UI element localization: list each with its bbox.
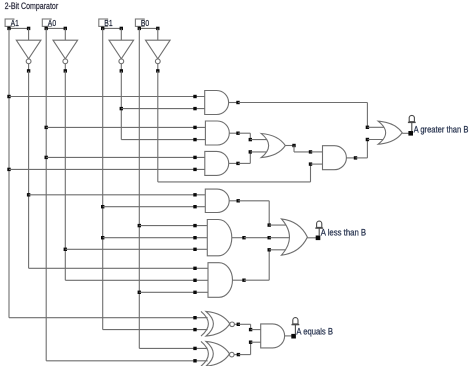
wire B1 to AND6 input B [103,236,208,239]
or-gate OR2 [378,121,411,144]
wire AND7 out to OR3 input C [244,248,287,280]
wire B0 to XNOR2 input A [139,347,207,350]
wire NOT-B1 vertical bus [120,71,123,140]
xnor-gate XNOR2 (B0,A0) [201,341,240,366]
wire B0 pin to inverter [138,26,160,30]
inverter NOT-B0 [146,28,171,72]
xnor-gate XNOR1 (A1,B1) [201,311,240,336]
wire OR1 out to AND4 input A [294,146,323,154]
wire B1 to XNOR1 input B [103,328,208,331]
wire A1 pin to inverter [7,26,30,30]
wire B1 to AND5 input B [103,205,206,208]
wire A1 vertical bus [7,28,10,317]
wire B0 vertical bus [138,28,141,348]
wire A1 to AND1 input A [9,95,205,98]
and-gate AND4 [323,146,358,170]
and-gate AND5 (A1'.B1) [205,189,240,212]
svg-text:B0: B0 [141,18,150,28]
and-gate AND8 (equals) [261,324,294,348]
wire XNOR1 out to AND8 input A [238,324,260,331]
svg-text:A equals B: A equals B [296,327,333,337]
wire AND5 out to OR3 input A [238,201,287,227]
wire NOT-B1 to AND2 input B [121,138,205,141]
LED output A equals B [292,318,300,335]
input pin B1 [99,18,114,28]
wire AND4 input B stub [311,163,323,165]
input pin A1 [5,18,20,28]
wire NOT-A1 vertical bus [27,71,30,268]
wire NOT-A0 to AND7 input B [65,279,208,282]
wire A0 pin to inverter [45,26,68,30]
wire A0 to XNOR2 input B [46,359,207,362]
or-gate OR3 (3-input) [281,219,318,255]
solder joint at output LED less [316,236,321,241]
wire B1 pin to inverter [101,26,123,30]
svg-text:A1: A1 [11,18,20,28]
and-gate AND6 (B0.B1.A0') [207,220,245,256]
svg-text:A greater than B: A greater than B [414,124,469,134]
and-gate AND3 (A0.A1) [205,151,240,175]
wire NOT-A0 to AND6 input C [65,248,207,251]
wire AND6 out to OR3 input B [244,236,290,239]
and-gate AND2 (A0.B1') [205,121,239,145]
wire AND4 out to OR2 input B [356,138,385,158]
wire NOT-B1 to AND1 input B [121,107,204,110]
svg-text:A less than B: A less than B [321,227,366,237]
svg-text:A0: A0 [48,18,57,28]
input pin B0 [135,18,150,28]
input pin A0 [42,18,57,28]
LED output A less than B [315,221,323,236]
wire XNOR2 out to AND8 input B [238,341,260,355]
and-gate AND7 (A1'.A0'.B0) [208,263,246,298]
wire NOT-A1 to AND5 input A [29,193,206,196]
solder joint at output LED equals [291,334,296,339]
inverter NOT-A0 [53,28,78,72]
wire AND1 out to OR2 input A [238,103,385,130]
svg-text:2-Bit Comparator: 2-Bit Comparator [5,1,59,11]
solder joint at output LED greater [408,131,413,136]
wire A0 to AND2 input A [46,126,205,129]
wire AND3 out to OR1 input B [238,150,268,163]
LED output A greater than B [408,115,416,131]
wire B0 to AND6 input A [139,224,207,227]
wire NOT-A0 vertical bus [64,71,67,280]
inverter NOT-A1 [16,28,41,72]
svg-text:B1: B1 [104,18,113,28]
wire B1 vertical bus [101,28,104,329]
wire A0 to AND3 input A [46,156,205,159]
wire NOT-A1 to AND7 input A [29,267,208,270]
inverter NOT-B1 [109,28,134,72]
wire NOT-B0 to AND4 input B [158,71,312,182]
and-gate AND1 (A1.B1') [205,91,240,115]
wire A1 to XNOR1 input A [9,316,208,319]
wire A1 to AND3 input B [9,168,205,171]
wire B0 to AND7 input C [139,291,208,294]
wire AND2 out to OR1 input A [238,133,268,141]
or-gate OR1 [261,134,295,158]
wire A0 vertical bus [45,28,48,360]
